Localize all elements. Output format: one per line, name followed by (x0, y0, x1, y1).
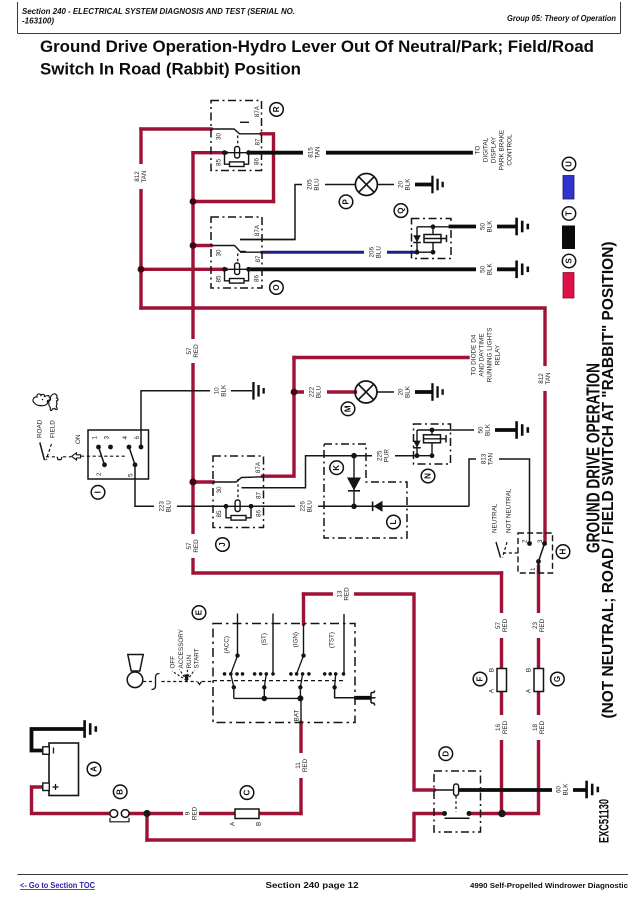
relay D armature link (455, 796, 457, 812)
module N middle branch (431, 430, 433, 456)
relay O case (211, 217, 262, 288)
label 50 BLK relay O (476, 259, 497, 280)
label 20 BLK lamp M (394, 382, 415, 403)
turtle icon (47, 394, 58, 411)
key switch contact dots TST (323, 672, 345, 676)
svg-text:ON: ON (75, 434, 82, 444)
svg-text:B: B (526, 668, 533, 672)
footer rule (18, 874, 629, 876)
relay J pin86 dot (249, 504, 254, 509)
legend red swatch (563, 273, 574, 299)
svg-text:RELAY: RELAY (495, 344, 502, 365)
wire relay R coil feed (193, 151, 226, 154)
svg-text:20: 20 (397, 388, 404, 396)
svg-text:87: 87 (256, 492, 263, 500)
svg-text:11: 11 (295, 762, 302, 769)
key switch contact dots IGN (289, 672, 311, 676)
module N bottom rail (417, 455, 432, 457)
wire relay J 87A output (263, 358, 295, 477)
wire 16 RED fuse F to relay D contact (500, 692, 503, 814)
module N pin dots (415, 453, 420, 458)
wire 57 RED main riser (193, 153, 502, 573)
key switch lower arm IGN (300, 674, 302, 687)
switch H box (518, 533, 553, 573)
module N top rail (417, 429, 451, 431)
svg-text:N: N (424, 473, 433, 479)
module Q resistor (424, 235, 441, 243)
circled M (341, 402, 355, 416)
svg-text:206: 206 (368, 246, 375, 257)
svg-text:1: 1 (92, 436, 99, 440)
module N diode (413, 441, 421, 448)
key head (128, 655, 143, 672)
svg-text:Q: Q (396, 207, 405, 213)
connector B halves (110, 810, 118, 818)
svg-text:TO DIODE D4: TO DIODE D4 (471, 334, 478, 375)
ground for module Q 50 BLK (515, 218, 529, 236)
svg-text:85: 85 (216, 275, 223, 283)
key switch ACC column (237, 614, 239, 656)
relay D case (434, 771, 481, 832)
svg-text:DIGITAL: DIGITAL (483, 137, 490, 162)
circled H (556, 545, 570, 559)
relay J coil (235, 500, 240, 512)
header frame (18, 2, 621, 34)
switch I arm 1-2 (99, 447, 105, 465)
svg-text:815: 815 (307, 147, 314, 158)
legend circled U (562, 157, 575, 170)
switch H pin1 drop (538, 562, 540, 574)
key switch selector dashed line (213, 680, 345, 682)
relay R coil line 85-86 (225, 152, 249, 154)
svg-text:226: 226 (299, 501, 306, 512)
wire 226 BLU relay J 86 to module K (251, 505, 354, 507)
fuse C (235, 809, 259, 819)
switch I arm 4-5 (129, 447, 135, 465)
battery minus sign (53, 748, 55, 754)
relay R 87A stub (240, 121, 249, 123)
ground for 10 BLK (252, 382, 264, 400)
label 813 TAN (476, 449, 499, 470)
module Q middle branch (432, 227, 434, 252)
svg-text:A: A (90, 766, 99, 772)
svg-text:<- Go to Section TOC: <- Go to Section TOC (20, 881, 95, 890)
circled E (192, 606, 206, 620)
svg-text:Ground Drive Operation-Hydro L: Ground Drive Operation-Hydro Lever Out O… (40, 38, 594, 56)
red junction node after connector B (143, 810, 150, 817)
relay J armature link (237, 479, 239, 500)
wire battery negative to ground (32, 729, 83, 751)
wire 18 RED fuse G down (469, 692, 539, 814)
wire module N top 50 BLK segment (451, 429, 496, 431)
svg-text:50: 50 (479, 265, 486, 273)
ground for module N 50 BLK (515, 421, 529, 439)
circled G fuse (551, 672, 565, 686)
svg-text:10: 10 (213, 387, 220, 395)
connector B bracket (110, 818, 129, 822)
rabbit icon (33, 394, 51, 406)
svg-text:9: 9 (184, 811, 191, 815)
key switch bus junction dots (262, 696, 268, 702)
key linkage dashed (143, 681, 152, 683)
lamp M indicator (355, 381, 377, 403)
svg-text:86: 86 (254, 275, 261, 283)
svg-text:RED: RED (193, 344, 200, 358)
svg-text:57: 57 (186, 542, 193, 550)
circled J (216, 538, 230, 552)
svg-text:18: 18 (532, 724, 539, 732)
svg-text:RED: RED (502, 618, 509, 632)
wire 57 RED to fuse F (500, 573, 503, 669)
relay J 87 stub (242, 487, 264, 489)
svg-text:TAN: TAN (488, 452, 495, 465)
svg-text:(ACC): (ACC) (224, 636, 231, 654)
svg-text:DISPLAY: DISPLAY (491, 136, 498, 163)
relay J resistor (226, 506, 251, 520)
wire 225 PUR module K to module N (354, 455, 417, 457)
relay R resistor (225, 153, 249, 167)
relay D contact left dot (442, 811, 447, 816)
label 815 TAN (303, 142, 326, 163)
module Q pin dots (415, 250, 420, 255)
wire connector B to fuse C (129, 812, 235, 815)
svg-text:86: 86 (254, 158, 261, 166)
relay O coil line 85-86 (225, 268, 249, 270)
svg-text:50: 50 (479, 223, 486, 231)
circled L (387, 515, 401, 529)
svg-text:OFF: OFF (170, 656, 177, 669)
relay R armature link (237, 136, 239, 147)
svg-text:16: 16 (495, 724, 502, 732)
wire relay D contact feed (147, 814, 445, 841)
relay O coil (235, 263, 240, 275)
relay R pin85 dot (222, 150, 227, 155)
svg-text:222: 222 (308, 386, 315, 397)
red junction node at relay J pin30 branch (189, 478, 196, 485)
svg-text:223: 223 (158, 501, 165, 512)
circled Q (394, 204, 408, 218)
key switch TST fork symbol (371, 691, 376, 706)
module N left branch with diode (416, 430, 418, 456)
svg-text:(IGN): (IGN) (293, 632, 300, 647)
module K L case outline (324, 444, 407, 538)
svg-text:RED: RED (193, 539, 200, 553)
switch I actuator arrow (72, 453, 81, 460)
svg-text:PUR: PUR (384, 449, 391, 463)
svg-text:BLK: BLK (487, 220, 494, 233)
label 57 RED lower (185, 534, 201, 558)
svg-text:RUNNING LIGHTS: RUNNING LIGHTS (487, 328, 494, 383)
wire 50 BLK module Q to ground (451, 225, 515, 229)
svg-text:30: 30 (216, 486, 223, 494)
wire lamp P to ground label segment (378, 184, 414, 186)
svg-text:BLU: BLU (307, 500, 314, 513)
key switch lower arm ST (264, 674, 266, 687)
wire 13 RED ignition to relay D coil (304, 594, 435, 790)
wire 11 RED battery feed to key switch BAT (299, 723, 302, 814)
svg-text:AND DAYTIME: AND DAYTIME (479, 333, 486, 376)
wire key switch TST arm output (335, 687, 357, 698)
svg-text:H: H (559, 548, 568, 554)
svg-text:Group 05: Theory of Operation: Group 05: Theory of Operation (507, 14, 616, 23)
svg-text:J: J (218, 542, 227, 546)
relay O armature link (237, 254, 239, 264)
svg-text:13: 13 (336, 590, 343, 598)
svg-text:225: 225 (376, 450, 383, 461)
relay D contact right dot (467, 811, 472, 816)
wire key switch TST output stub (356, 696, 370, 700)
svg-text:B: B (489, 668, 496, 672)
svg-text:87: 87 (255, 138, 262, 146)
wire 50 BLK module N to ground (494, 428, 515, 432)
svg-text:O: O (272, 284, 281, 290)
key switch lower arm TST (335, 674, 336, 687)
relay J coil line 85-86 (226, 505, 251, 507)
wire module L output 226 BLU run (354, 505, 469, 507)
svg-text:G: G (553, 676, 562, 682)
key switch TST column (343, 614, 345, 674)
svg-text:BLU: BLU (166, 500, 173, 513)
svg-text:NEUTRAL: NEUTRAL (492, 503, 499, 533)
battery plus sign (53, 784, 59, 790)
svg-text:30: 30 (216, 249, 223, 257)
svg-text:87A: 87A (255, 461, 262, 473)
wire 222 BLU to lamp M (294, 390, 356, 393)
key switch ST column (272, 614, 274, 674)
svg-text:BLK: BLK (221, 384, 228, 397)
svg-text:205: 205 (306, 179, 313, 190)
module Q left branch with diode (416, 227, 418, 252)
svg-text:812: 812 (538, 373, 545, 384)
red junction node at lamp M branch (291, 389, 298, 396)
svg-text:86: 86 (256, 510, 263, 518)
svg-text:RED: RED (502, 720, 509, 734)
circled N (421, 469, 435, 483)
red junction node at 812 TAN relay O coil branch (138, 266, 145, 273)
wire relay R 87 output (262, 134, 274, 202)
wire feed to relay R pin30 (141, 127, 211, 130)
key position pointer arrowhead (184, 675, 189, 683)
svg-text:50: 50 (477, 426, 484, 434)
wire 223 BLU switch I pin5 to relay J coil (135, 465, 226, 507)
ground for 60 BLK (585, 781, 599, 799)
key position pointer fan (172, 669, 195, 681)
red junction node at relay D output (498, 810, 506, 818)
circled F fuse (473, 672, 487, 686)
label 812 TAN right (536, 366, 553, 391)
svg-text:3: 3 (537, 539, 544, 543)
svg-text:BLK: BLK (405, 385, 412, 398)
svg-text:87A: 87A (254, 105, 261, 117)
wire hydro switch pin1 down (537, 566, 540, 573)
label 223 BLU (154, 496, 177, 517)
wire 815 TAN relay R to digital display (249, 151, 471, 155)
wire 206 BLU relay O 87 to module Q (262, 251, 417, 254)
switch I lever V (40, 443, 45, 461)
svg-text:B: B (256, 822, 263, 826)
svg-text:3: 3 (104, 436, 111, 440)
module Q case (412, 219, 452, 259)
key switch contact dots ACC (223, 672, 245, 676)
svg-text:(NOT NEUTRAL; ROAD / FIELD SWI: (NOT NEUTRAL; ROAD / FIELD SWITCH AT "RA… (600, 242, 617, 719)
key switch lower arm ACC (231, 674, 234, 687)
svg-text:85: 85 (216, 159, 223, 167)
svg-text:Switch In Road (Rabbit) Positi: Switch In Road (Rabbit) Position (40, 61, 301, 79)
circled I (91, 486, 105, 500)
label 57 RED upper (185, 339, 201, 363)
wire lamp M to ground label segment (377, 391, 413, 393)
red junction node at 57 RED / relay R output (190, 198, 197, 205)
svg-text:BLK: BLK (405, 178, 412, 191)
label 225 PUR (372, 446, 395, 467)
wire branch to relay O coil 85 (141, 268, 226, 271)
module K diode branch (353, 456, 355, 507)
circled O (270, 281, 284, 295)
svg-text:57: 57 (495, 622, 502, 630)
svg-text:P: P (342, 198, 351, 204)
ground for battery negative (83, 720, 97, 738)
battery box (49, 743, 79, 796)
wire to diode D4 daytime running lights relay (294, 356, 468, 359)
svg-text:1: 1 (530, 567, 537, 571)
wire node to 57 RED riser (193, 200, 274, 203)
svg-text:TO: TO (475, 146, 482, 155)
svg-text:(TST): (TST) (329, 632, 336, 648)
circled R (270, 103, 284, 117)
svg-text:85: 85 (216, 510, 223, 518)
label 11 RED (293, 753, 310, 778)
label 13 RED (333, 584, 354, 605)
svg-text:812: 812 (134, 171, 141, 182)
module Q diode (413, 235, 421, 242)
svg-text:F: F (476, 676, 485, 681)
fuse G (534, 669, 544, 692)
relay R case (211, 101, 262, 171)
svg-text:BLK: BLK (485, 423, 492, 436)
relay O contact arm (211, 246, 246, 252)
relay O resistor (225, 269, 249, 283)
relay O pin85 dot (222, 267, 227, 272)
key barrel circle (127, 672, 143, 688)
label 18 RED (530, 715, 547, 740)
switch I pin dots row (96, 445, 101, 450)
wire 10 BLK switch I pin6 to ground (141, 391, 252, 447)
label 50 BLK module Q (476, 216, 497, 237)
wire 812 TAN left vertical (139, 129, 142, 308)
ground for relay O 50 BLK (515, 261, 529, 279)
module K bottom dot (351, 504, 357, 510)
legend circled T (562, 207, 575, 220)
switch H lever V (496, 542, 501, 558)
switch I selector dashed line (46, 456, 56, 458)
circled K (330, 461, 344, 475)
svg-text:BLU: BLU (314, 178, 321, 191)
label 9 RED (183, 803, 199, 824)
module K diode (347, 478, 361, 491)
svg-text:RUN: RUN (186, 654, 193, 668)
svg-text:RED: RED (192, 806, 199, 820)
label 60 BLK (552, 779, 573, 800)
circled D (439, 747, 453, 761)
switch I box (88, 430, 149, 479)
svg-text:RED: RED (539, 720, 546, 734)
svg-text:T: T (565, 211, 574, 216)
wire branch to relay J pin30 (193, 480, 213, 483)
wire 9 RED battery positive run (32, 787, 110, 814)
svg-text:PARK BRAKE: PARK BRAKE (499, 130, 506, 170)
wire relay J 87 to module K top (242, 456, 355, 488)
circled P (339, 195, 353, 209)
relay D contact bar (445, 817, 470, 819)
key switch contact dots ST (253, 672, 275, 676)
module N case (414, 424, 451, 464)
legend circled S (562, 254, 575, 267)
wire 60 BLK relay D coil to ground (461, 788, 584, 792)
relay O 87 stub (240, 251, 262, 253)
key switch IGN column (303, 624, 305, 656)
svg-text:4: 4 (122, 436, 129, 440)
module K top dot (351, 453, 357, 459)
svg-text:2: 2 (522, 539, 529, 543)
svg-text:20: 20 (397, 181, 404, 189)
svg-text:(ST): (ST) (261, 633, 268, 645)
svg-text:RED: RED (539, 618, 546, 632)
wire 50 BLK relay O 86 to ground (249, 267, 515, 271)
svg-text:EXC51130: EXC51130 (597, 799, 612, 843)
lamp P park brake indicator (355, 174, 377, 196)
wire 812 TAN cross run to hydro switch (141, 308, 545, 544)
svg-text:E: E (195, 609, 204, 615)
svg-text:TAN: TAN (315, 146, 322, 159)
key linkage coupler (152, 674, 160, 690)
module Q top rail (417, 226, 451, 228)
svg-text:K: K (332, 465, 341, 471)
relay J pin85 dot (224, 504, 229, 509)
svg-text:87: 87 (255, 255, 262, 263)
svg-text:CONTROL: CONTROL (507, 134, 514, 166)
wire branch down from node B (145, 814, 148, 841)
label 16 RED (493, 715, 510, 740)
svg-text:Section 240 page 12: Section 240 page 12 (266, 881, 360, 890)
switch H pin3 dot (542, 541, 547, 546)
key linkage dashed 2 (162, 681, 198, 683)
label 226 BLU (295, 496, 318, 517)
battery negative terminal (43, 747, 50, 755)
switch H selector dashed line (503, 552, 518, 554)
svg-text:23: 23 (532, 622, 539, 630)
label 20 BLK lamp P (394, 174, 415, 195)
wire fuse C to 11 RED riser (259, 812, 301, 815)
svg-text:S: S (565, 258, 574, 264)
wire 23 RED hydro switch to fuse G (537, 573, 540, 670)
svg-text:I: I (94, 491, 103, 493)
relay J contact arm (213, 477, 263, 482)
svg-text:RED: RED (344, 587, 351, 601)
svg-text:-163100): -163100) (22, 17, 54, 26)
label 23 RED fuse G (530, 613, 547, 638)
svg-text:U: U (565, 161, 574, 167)
svg-text:5: 5 (128, 473, 135, 477)
label 222 BLU (304, 382, 327, 403)
svg-text:ACCESSORY: ACCESSORY (178, 628, 185, 668)
circled C fuse (240, 786, 254, 800)
label 206 BLU (364, 241, 387, 262)
svg-text:RED: RED (302, 758, 309, 772)
wire 813 TAN to hydro lever switch pin2 (469, 459, 530, 544)
legend blue swatch (563, 176, 574, 200)
module N resistor (424, 435, 441, 443)
svg-text:BLK: BLK (563, 783, 570, 796)
